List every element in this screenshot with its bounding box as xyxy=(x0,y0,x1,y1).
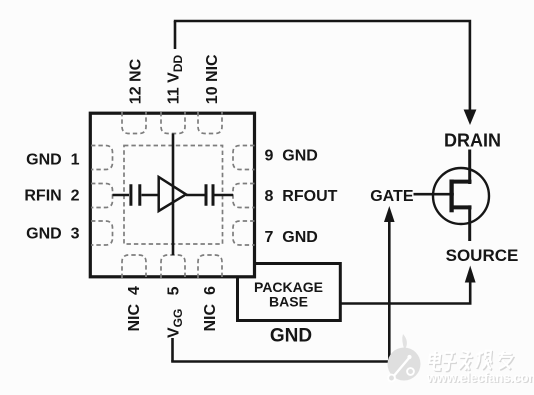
wire amplifier output to C2 xyxy=(186,194,205,197)
pad pin 2 xyxy=(91,184,113,208)
svg-text:RFIN 2: RFIN 2 xyxy=(24,188,79,205)
pad pin 7 xyxy=(233,221,255,245)
svg-text:www.elecfans.com: www.elecfans.com xyxy=(426,370,534,385)
thermal pad exposed paddle xyxy=(124,146,223,245)
svg-text:9 GND: 9 GND xyxy=(265,148,318,165)
pad pin 11 xyxy=(161,112,185,134)
arrowhead into source xyxy=(465,266,476,283)
package U1 outline xyxy=(90,113,254,277)
svg-text:NIC 6: NIC 6 xyxy=(202,286,219,331)
wire RFIN pin2 to C1 xyxy=(113,194,130,197)
watermark logo elecfans xyxy=(388,334,421,381)
wire VDD pin11 to VGG pin5 bias line xyxy=(172,134,175,256)
wire gate lead xyxy=(414,193,454,196)
wire gate riser xyxy=(388,221,391,363)
amplifier A1 xyxy=(159,177,186,211)
arrowhead into gate xyxy=(384,206,395,222)
wire VDD stub above pin 11 xyxy=(174,21,177,49)
pad pin 8 xyxy=(233,184,255,208)
svg-text:GND: GND xyxy=(270,326,312,347)
svg-text:SOURCE: SOURCE xyxy=(446,246,519,265)
pad pin 10 xyxy=(198,112,222,134)
svg-text:12 NC: 12 NC xyxy=(128,58,145,104)
pad pin 6 xyxy=(198,255,222,278)
wire VGG pin5 down xyxy=(171,338,174,362)
transistor Q1 bottom arm xyxy=(450,205,472,209)
wire C2 to RFOUT pin8 xyxy=(215,194,234,197)
svg-text:10 NIC: 10 NIC xyxy=(204,54,221,104)
svg-text:NIC 4: NIC 4 xyxy=(126,286,143,331)
svg-text:GND 3: GND 3 xyxy=(26,226,79,243)
pad pin 1 xyxy=(91,146,113,170)
pad pin 4 xyxy=(122,255,146,278)
transistor Q1 gate bar xyxy=(449,180,453,213)
wire package base to source xyxy=(340,281,471,304)
svg-text:11 VDD: 11 VDD xyxy=(165,55,185,105)
package base box xyxy=(238,264,341,321)
transistor Q1 circle xyxy=(433,168,489,224)
svg-text:7 GND: 7 GND xyxy=(265,229,318,246)
pad pin 3 xyxy=(91,221,113,245)
wire C1 to amplifier input xyxy=(142,194,159,197)
svg-text:VGG 5: VGG 5 xyxy=(165,286,185,338)
pad pin 12 xyxy=(122,112,146,134)
svg-text:8 RFOUT: 8 RFOUT xyxy=(265,188,338,205)
transistor Q1 drain lead xyxy=(468,150,471,185)
svg-text:GND 1: GND 1 xyxy=(26,152,79,169)
watermark chinese characters dian zi fa shao you xyxy=(429,352,514,371)
svg-text:GATE: GATE xyxy=(370,188,414,205)
svg-text:DRAIN: DRAIN xyxy=(444,131,501,151)
capacitor C2 xyxy=(206,184,213,205)
arrowhead into drain xyxy=(464,110,477,126)
wire VDD to drain top run xyxy=(174,21,470,112)
pad pin 5 xyxy=(161,255,185,278)
transistor Q1 top arm xyxy=(450,180,472,184)
capacitor C1 xyxy=(131,184,140,205)
pad pin 9 xyxy=(233,146,255,170)
transistor Q1 source lead xyxy=(468,205,471,241)
svg-text:BASE: BASE xyxy=(269,294,308,310)
wire VGG to gate bottom run xyxy=(171,360,389,363)
